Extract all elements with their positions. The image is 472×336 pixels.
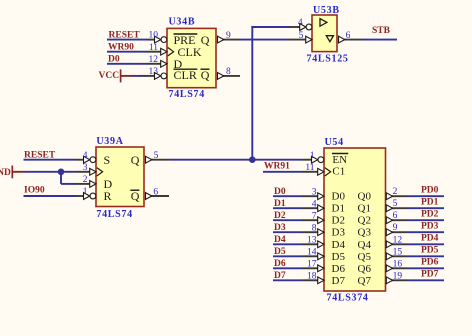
svg-text:5: 5 bbox=[154, 151, 159, 161]
svg-text:74LS74: 74LS74 bbox=[96, 209, 132, 220]
U39A pin 6 Q-bar stub bbox=[146, 193, 170, 200]
svg-text:74LS74: 74LS74 bbox=[169, 89, 205, 100]
svg-text:PD1: PD1 bbox=[421, 198, 439, 208]
svg-text:D3: D3 bbox=[332, 227, 346, 239]
svg-text:PD2: PD2 bbox=[421, 210, 439, 220]
wire D0 to U54 pin 3 bbox=[273, 195, 302, 197]
wire D2 to U54 pin 7 bbox=[273, 219, 302, 221]
wire U54 pin 9 to PD3 bbox=[407, 231, 444, 233]
wire D0 to U34B pin 12 bbox=[107, 63, 147, 65]
svg-text:R: R bbox=[104, 189, 112, 203]
svg-text:19: 19 bbox=[393, 271, 403, 281]
svg-text:11: 11 bbox=[149, 43, 158, 53]
wire U39A pin 5 to junction bbox=[169, 159, 252, 161]
wire junction to U54 pin 1 bbox=[252, 159, 302, 161]
wire VCC to U34B pin 13 bbox=[132, 75, 142, 77]
svg-text:CLR: CLR bbox=[174, 68, 197, 82]
svg-text:EN: EN bbox=[332, 154, 347, 166]
svg-text:74LS374: 74LS374 bbox=[327, 293, 369, 304]
svg-text:7: 7 bbox=[312, 211, 317, 221]
U54 pin 7 D2 stub bbox=[302, 217, 324, 224]
svg-text:U53B: U53B bbox=[313, 5, 340, 16]
svg-text:10: 10 bbox=[149, 31, 159, 41]
svg-text:4: 4 bbox=[83, 151, 88, 161]
wire junction down branch bbox=[60, 172, 62, 184]
U34B pin 11 CLK stub bbox=[147, 48, 174, 56]
wire U54 pin 16 to PD6 bbox=[407, 267, 444, 269]
power port VCC bbox=[99, 69, 133, 82]
svg-text:8: 8 bbox=[226, 67, 231, 77]
U54 pin 4 D1 stub bbox=[302, 205, 324, 212]
svg-text:IO90: IO90 bbox=[24, 186, 45, 196]
svg-text:5: 5 bbox=[393, 199, 398, 209]
U54 pin 5 Q1 stub bbox=[386, 205, 407, 212]
svg-text:Q6: Q6 bbox=[358, 263, 372, 275]
svg-text:4: 4 bbox=[298, 18, 303, 28]
wire GND port to junction bbox=[25, 171, 62, 173]
U39A pin 5 Q stub bbox=[146, 156, 170, 163]
power port GND (clipped at left edge) bbox=[0, 166, 25, 179]
wire D7 to U54 pin 18 bbox=[273, 279, 302, 281]
wire branch to U39A pin 2 bbox=[61, 183, 76, 185]
svg-text:16: 16 bbox=[393, 259, 403, 269]
svg-text:6: 6 bbox=[153, 187, 158, 197]
svg-text:Q1: Q1 bbox=[358, 203, 371, 215]
svg-text:Q3: Q3 bbox=[358, 227, 372, 239]
svg-text:5: 5 bbox=[299, 31, 304, 41]
svg-text:18: 18 bbox=[307, 272, 317, 282]
svg-text:D2: D2 bbox=[332, 215, 345, 227]
wire U53B pin 4 horizontal segment bbox=[251, 26, 290, 28]
wire vertical enable net segment bbox=[251, 26, 253, 160]
U39A pin 1 R stub bbox=[76, 193, 96, 200]
svg-text:S: S bbox=[104, 153, 111, 167]
wire U54 pin 6 to PD2 bbox=[407, 219, 444, 221]
svg-text:Q: Q bbox=[201, 68, 210, 82]
wire U54 pin 5 to PD1 bbox=[407, 207, 444, 209]
buffer U53B body bbox=[312, 15, 337, 52]
svg-text:D7: D7 bbox=[332, 275, 346, 287]
U34B pin 9 Q stub bbox=[218, 36, 241, 43]
U39A internal pin names bbox=[104, 153, 140, 203]
flip-flop U39A body bbox=[96, 147, 144, 207]
svg-text:U34B: U34B bbox=[169, 16, 196, 27]
wire U34B pin 9 to U53B pin 5 bbox=[240, 39, 288, 41]
U39A pin 4 S stub bbox=[76, 156, 96, 163]
wire D3 to U54 pin 8 bbox=[273, 231, 302, 233]
U34B pin 10 PRE stub bbox=[147, 36, 167, 43]
U54 pin 18 D7 stub bbox=[302, 277, 324, 284]
svg-text:PD3: PD3 bbox=[421, 222, 439, 232]
svg-text:PD5: PD5 bbox=[421, 246, 439, 256]
svg-text:D1: D1 bbox=[332, 203, 345, 215]
U54 pin 13 D4 stub bbox=[302, 241, 324, 248]
svg-text:6: 6 bbox=[346, 31, 351, 41]
svg-text:Q5: Q5 bbox=[358, 251, 372, 263]
svg-text:1: 1 bbox=[83, 187, 88, 197]
svg-text:D4: D4 bbox=[332, 239, 346, 251]
svg-text:4: 4 bbox=[312, 199, 317, 209]
U54 pin 17 D6 stub bbox=[302, 265, 324, 272]
wire junction to U39A pin 3 bbox=[61, 171, 76, 173]
wire RESET to U39A pin 4 bbox=[24, 159, 77, 161]
svg-text:14: 14 bbox=[307, 248, 317, 258]
svg-text:1: 1 bbox=[310, 151, 315, 161]
U34B pin 8 Q-bar stub bbox=[218, 73, 241, 80]
svg-text:3: 3 bbox=[312, 187, 317, 197]
svg-text:VCC: VCC bbox=[99, 71, 120, 81]
svg-text:12: 12 bbox=[149, 55, 159, 65]
wire RESET to U34B pin 10 bbox=[107, 39, 147, 41]
U54 pin 19 Q7 stub bbox=[386, 277, 407, 284]
U54 pin 12 Q4 stub bbox=[386, 241, 407, 248]
wire D1 to U54 pin 4 bbox=[273, 207, 302, 209]
svg-text:Q0: Q0 bbox=[358, 191, 372, 203]
U54 pin 3 D0 stub bbox=[302, 193, 324, 200]
svg-text:74LS125: 74LS125 bbox=[307, 54, 349, 65]
U34B pin 13 CLR stub bbox=[140, 73, 167, 80]
wire U54 pin 15 to PD5 bbox=[407, 255, 444, 257]
wire U54 pin 19 to PD7 bbox=[407, 279, 444, 281]
svg-text:2: 2 bbox=[393, 187, 398, 197]
svg-text:PD0: PD0 bbox=[421, 186, 439, 196]
U54 pin 9 Q3 stub bbox=[386, 229, 407, 236]
svg-text:12: 12 bbox=[393, 235, 403, 245]
wire U53B pin 6 to STB bbox=[362, 39, 398, 41]
svg-text:17: 17 bbox=[307, 260, 317, 270]
svg-text:Q: Q bbox=[131, 189, 140, 203]
wire IO90 to U39A pin 1 bbox=[24, 195, 77, 197]
U53B pin 5 input stub bbox=[288, 36, 312, 43]
wire D6 to U54 pin 17 bbox=[273, 267, 302, 269]
wire WR91 to U54 pin 11 bbox=[263, 171, 302, 173]
U54 pin 2 Q0 stub bbox=[386, 193, 407, 200]
wire D4 to U54 pin 13 bbox=[273, 243, 302, 245]
svg-text:Q4: Q4 bbox=[358, 239, 372, 251]
svg-text:C1: C1 bbox=[332, 166, 345, 178]
svg-text:11: 11 bbox=[305, 163, 314, 173]
svg-text:GND: GND bbox=[0, 168, 11, 178]
U54 pin 15 Q5 stub bbox=[386, 253, 407, 260]
svg-text:3: 3 bbox=[83, 163, 88, 173]
U39A pin 2 D stub bbox=[76, 181, 96, 188]
flip-flop U34B body bbox=[167, 28, 216, 87]
svg-text:STB: STB bbox=[372, 26, 391, 36]
svg-text:PD7: PD7 bbox=[421, 270, 439, 280]
U53B pin 4 enable stub bbox=[290, 24, 312, 31]
svg-text:PD4: PD4 bbox=[421, 234, 439, 244]
svg-text:D5: D5 bbox=[332, 251, 346, 263]
U39A pin 3 CLK stub bbox=[76, 168, 103, 176]
U54 pin 1 EN stub bbox=[302, 156, 324, 163]
svg-text:U54: U54 bbox=[325, 137, 344, 148]
junction at U39A clock/D net bbox=[58, 169, 65, 176]
svg-text:U39A: U39A bbox=[96, 136, 123, 147]
U54 pin 6 Q2 stub bbox=[386, 217, 407, 224]
U34B internal pin names bbox=[174, 33, 210, 82]
U53B pin 6 output stub bbox=[339, 36, 362, 43]
svg-text:PD6: PD6 bbox=[421, 258, 439, 268]
U54 pin 16 Q6 stub bbox=[386, 265, 407, 272]
register U54 body bbox=[324, 148, 386, 291]
U54 pin 11 C1 stub bbox=[302, 168, 331, 176]
svg-text:WR91: WR91 bbox=[264, 161, 290, 171]
svg-text:Q: Q bbox=[201, 33, 210, 47]
U34B pin 12 D stub bbox=[147, 60, 167, 67]
svg-text:D0: D0 bbox=[332, 191, 346, 203]
wire U54 pin 12 to PD4 bbox=[407, 243, 444, 245]
U53B enable triangle symbol bbox=[326, 36, 333, 42]
wire D5 to U54 pin 14 bbox=[273, 255, 302, 257]
svg-text:8: 8 bbox=[312, 223, 317, 233]
svg-text:6: 6 bbox=[393, 211, 398, 221]
svg-text:2: 2 bbox=[83, 175, 88, 185]
svg-text:D6: D6 bbox=[332, 263, 346, 275]
U53B buffer triangle symbol bbox=[320, 19, 327, 27]
U54 internal EN and C1 labels bbox=[332, 154, 348, 178]
svg-text:9: 9 bbox=[226, 31, 231, 41]
wire U54 pin 2 to PD0 bbox=[407, 195, 444, 197]
svg-text:13: 13 bbox=[149, 67, 159, 77]
svg-text:Q7: Q7 bbox=[358, 275, 372, 287]
svg-text:15: 15 bbox=[393, 247, 403, 257]
svg-text:Q2: Q2 bbox=[358, 215, 371, 227]
U54 pin 14 D5 stub bbox=[302, 253, 324, 260]
svg-text:9: 9 bbox=[393, 223, 398, 233]
wire WR90 to U34B pin 11 bbox=[107, 51, 147, 53]
svg-text:Q: Q bbox=[131, 153, 140, 167]
U54 pin 8 D3 stub bbox=[302, 229, 324, 236]
junction at enable net bbox=[249, 156, 256, 163]
svg-text:13: 13 bbox=[307, 236, 317, 246]
